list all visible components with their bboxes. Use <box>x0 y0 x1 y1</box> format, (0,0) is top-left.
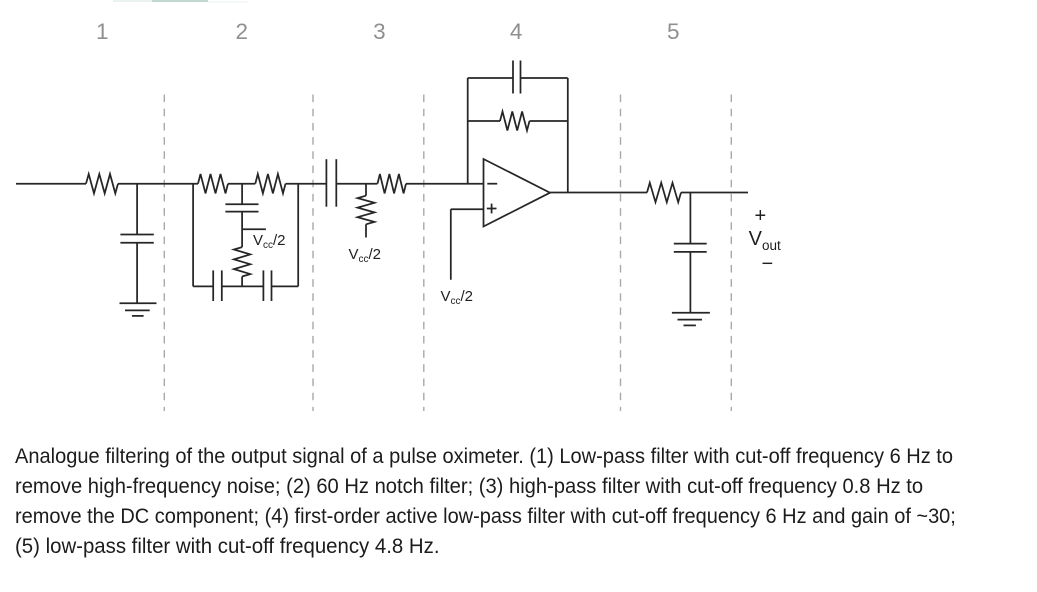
wire: feedback left vertical <box>467 78 469 184</box>
stage divider 1 (dashed) <box>163 95 165 412</box>
wire: R1 to node A (junctions at C1 branch and stage-2 left branch) <box>118 183 198 185</box>
wire: notch bottom rail, left piece <box>193 285 213 287</box>
stage number 5 <box>653 19 693 44</box>
stage divider 2 (dashed) <box>312 95 314 412</box>
capacitor C4 (feedback) <box>513 61 521 94</box>
net label Vout <box>749 229 781 256</box>
wire: R3a to Vcc/2 terminal <box>365 224 367 237</box>
output terminal minus sign <box>762 254 774 274</box>
resistor R5 (stage 5 low-pass) <box>647 183 681 202</box>
wire: C2a down through Vcc/2 tap to R2c <box>241 212 243 248</box>
capacitor C2c (notch bottom, right) <box>263 270 271 301</box>
stage number 4 <box>496 19 536 44</box>
wire: input <box>16 183 86 185</box>
wire: R2a to R2b (node B at centre) <box>228 183 255 185</box>
wire: feedback resistor rail right <box>530 120 568 122</box>
wire: R2c to bottom rail <box>241 277 243 287</box>
output terminal plus sign <box>755 206 767 226</box>
op-amp U1 inverting pin mark (minus) <box>487 183 497 185</box>
ground (stage 1) <box>120 303 157 316</box>
wire: Vcc/2 tap stub <box>242 228 266 230</box>
wire: C1 to ground <box>136 243 138 303</box>
wire: feedback resistor rail left <box>468 120 500 122</box>
wire: node B down to C2a <box>241 184 243 205</box>
wire: notch bottom rail, right piece <box>272 285 299 287</box>
stage divider 4 (dashed) <box>620 95 622 412</box>
capacitor C3 (stage 3 series) <box>326 159 336 207</box>
wire: notch bottom rail, centre piece <box>222 285 264 287</box>
stage divider 3 (dashed) <box>423 95 425 412</box>
capacitor C2b (notch bottom, left) <box>213 270 222 301</box>
resistor R4 (feedback) <box>500 112 530 131</box>
resistor R3b (stage 3/4 series) <box>378 174 407 193</box>
ground (stage 5) <box>672 313 710 326</box>
resistor R2a (notch, left) <box>198 174 228 193</box>
resistor R3a (stage 3, vertical to Vcc/2) <box>358 196 375 225</box>
stage number 1 <box>82 19 122 44</box>
wire: node D down to C5 <box>689 193 691 244</box>
wire: stage-2 right vertical branch <box>297 184 299 287</box>
resistor R2c (notch, vertical to Vcc/2) <box>234 247 250 276</box>
net label Vcc/2 (stage 3) <box>349 247 382 268</box>
wire: R3b to op-amp inverting input (feedback junction) <box>406 183 484 185</box>
resistor R1 (stage 1 low-pass) <box>86 174 118 193</box>
op-amp U1 <box>484 159 551 227</box>
wire: node C down to R3a <box>365 184 367 196</box>
capacitor C1 (stage 1) <box>120 235 153 243</box>
net label Vcc/2 (stage 2) <box>253 233 286 254</box>
net label Vcc/2 (stage 4, non-inverting bias) <box>441 289 474 310</box>
wire: feedback right vertical down to output <box>567 78 569 193</box>
figure caption <box>15 441 1023 561</box>
stage number 2 <box>222 19 262 44</box>
wire: C3 to node C <box>336 183 377 185</box>
wire: node A down to C1 <box>136 184 138 235</box>
wire: op-amp output <box>550 192 647 194</box>
stage divider 5 (dashed) <box>730 95 732 412</box>
wire: feedback top rail left <box>468 77 513 79</box>
wire: R5 to output terminal (junction at C5 branch) <box>681 192 748 194</box>
resistor R2b (notch, right) <box>255 174 285 193</box>
wire: stage-2 left vertical branch <box>192 184 194 287</box>
op-amp U1 non-inverting pin mark (plus) <box>487 204 497 214</box>
capacitor C5 (stage 5) <box>674 244 707 252</box>
stage number 3 <box>359 19 399 44</box>
capacitor C2a (notch centre) <box>225 204 258 211</box>
wire: C5 to ground <box>689 252 691 313</box>
wire: feedback top rail right <box>521 77 568 79</box>
wire: non-inverting input <box>451 208 484 210</box>
wire: non-inverting input down to Vcc/2 terminal <box>450 209 452 279</box>
wire: R2b to stage-2 right branch and on to C3 <box>286 183 327 185</box>
